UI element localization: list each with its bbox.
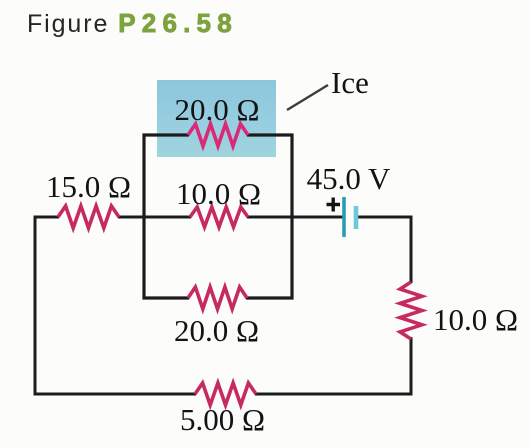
svg-text:20.0 Ω: 20.0 Ω [174, 313, 259, 348]
wire: left outer vertical [34, 216, 37, 395]
svg-text:Ice: Ice [331, 65, 369, 100]
wire: middle box left edge [142, 134, 145, 300]
resistor 15.0 ohm [58, 206, 119, 228]
wire: right outer vertical upper [410, 216, 413, 284]
wire: middle box bottom edge right part [246, 296, 294, 299]
wire: middle box top edge right part [247, 133, 294, 136]
battery plus sign [327, 198, 341, 212]
wire: battery to right wire [357, 216, 413, 219]
svg-text:5.00 Ω: 5.00 Ω [180, 402, 265, 437]
resistor 10.0 ohm (right, vertical) [400, 282, 422, 339]
resistor 20.0 ohm (top, in ice) [188, 124, 248, 146]
ice leader line [287, 85, 328, 110]
svg-text:45.0 V: 45.0 V [307, 161, 391, 196]
battery 45.0 V : short plate [354, 206, 359, 229]
wire: bottom left segment [34, 393, 197, 396]
wire: middle box bottom edge left part [143, 296, 190, 299]
resistor 20.0 ohm (bottom) [188, 287, 247, 309]
resistor 10.0 ohm (middle) [190, 207, 248, 227]
svg-text:10.0 Ω: 10.0 Ω [176, 176, 261, 211]
wire: bottom right segment [255, 393, 413, 396]
svg-text:20.0 Ω: 20.0 Ω [174, 92, 259, 127]
figure title [27, 10, 238, 37]
battery 45.0 V : long plate [342, 197, 346, 237]
wire: main horizontal left segment [35, 216, 59, 219]
wire: middle box top edge left part [143, 133, 190, 136]
resistor 5.00 ohm [195, 383, 256, 405]
wire: between 10ohm and battery [247, 216, 343, 219]
wire: middle box right edge [290, 134, 293, 300]
wire: right outer vertical lower [410, 337, 413, 396]
wire: between 15ohm and 10ohm resistors [118, 216, 191, 219]
svg-text:15.0 Ω: 15.0 Ω [46, 169, 131, 204]
svg-text:10.0 Ω: 10.0 Ω [433, 302, 518, 337]
